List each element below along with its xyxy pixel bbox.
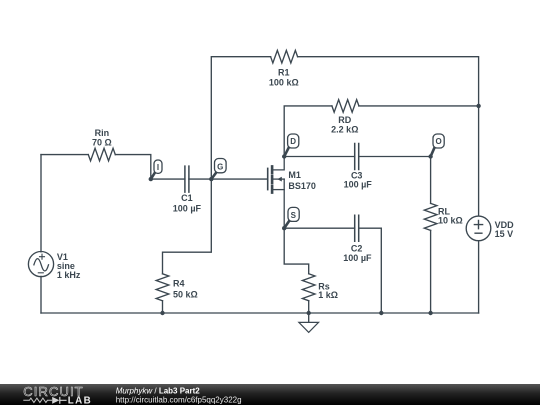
capacitor C3 — [344, 144, 373, 190]
svg-text:LAB: LAB — [68, 396, 92, 405]
wire node I to C1 — [151, 178, 185, 180]
wire gate — [211, 178, 267, 180]
svg-text:100 µF: 100 µF — [173, 203, 202, 213]
svg-text:100 kΩ: 100 kΩ — [269, 78, 299, 88]
wire node S to C2 — [284, 227, 355, 229]
svg-text:R1: R1 — [278, 68, 290, 78]
wire V1 top lead — [40, 155, 42, 252]
wire node O to RL — [430, 157, 432, 204]
wire V1 bottom lead — [40, 276, 42, 313]
wire node G to R4 — [163, 179, 212, 274]
wire RD left leg — [284, 106, 332, 157]
svg-text:C1: C1 — [181, 193, 193, 203]
wire RL to ground rail — [430, 230, 432, 313]
wire ground rail — [41, 312, 479, 314]
wire node D to C3 — [284, 156, 355, 158]
CircuitLab logo — [23, 384, 92, 405]
svg-text:Rin: Rin — [95, 128, 110, 138]
capacitor C1 — [173, 166, 202, 213]
capacitor C2 — [343, 215, 372, 263]
footer bar — [0, 384, 540, 405]
junction RL-rail — [428, 311, 432, 315]
resistor RL — [424, 203, 462, 230]
wire RD right lead — [359, 105, 479, 107]
transistor M1 — [268, 157, 316, 229]
svg-text:Murphykw / Lab3 Part2: Murphykw / Lab3 Part2 — [116, 386, 201, 395]
footer title text — [116, 386, 242, 404]
svg-text:D: D — [290, 137, 296, 146]
node O — [428, 134, 444, 159]
svg-text:BS170: BS170 — [288, 181, 316, 191]
resistor R4 — [156, 274, 198, 301]
svg-text:http://circuitlab.com/c6fp5qq2: http://circuitlab.com/c6fp5qq2y322g — [116, 395, 242, 404]
wire C1 to node G — [189, 178, 211, 180]
svg-text:O: O — [435, 137, 441, 146]
svg-text:S: S — [291, 211, 297, 220]
svg-text:C2: C2 — [351, 243, 363, 253]
wire Rin left lead — [41, 154, 88, 156]
resistor Rin — [88, 128, 115, 161]
svg-text:1 kHz: 1 kHz — [57, 270, 81, 280]
svg-text:100 µF: 100 µF — [343, 253, 372, 263]
node I — [149, 160, 162, 181]
wire node S to Rs — [284, 228, 309, 274]
junction Rs-rail — [307, 311, 311, 315]
voltage source V1 — [28, 252, 81, 281]
resistor RD — [331, 100, 359, 135]
svg-text:15 V: 15 V — [495, 229, 514, 239]
wire C2 to rail — [359, 228, 382, 313]
svg-text:10 kΩ: 10 kΩ — [438, 215, 463, 225]
wire R4 bottom lead — [162, 301, 164, 313]
wire R1 to VDD top — [298, 57, 479, 216]
svg-text:1 kΩ: 1 kΩ — [318, 290, 338, 300]
svg-text:M1: M1 — [288, 170, 301, 180]
junction C2-rail — [379, 311, 383, 315]
svg-text:50 kΩ: 50 kΩ — [173, 289, 198, 299]
wire Rs bottom lead — [308, 301, 310, 313]
resistor Rs — [302, 274, 338, 301]
node G — [209, 159, 226, 182]
junction R4-rail — [160, 311, 164, 315]
node S — [282, 207, 299, 230]
wire Rin right lead to node I — [115, 155, 151, 180]
svg-text:G: G — [217, 162, 223, 171]
svg-text:70 Ω: 70 Ω — [92, 138, 112, 148]
ground — [299, 313, 319, 332]
svg-text:100 µF: 100 µF — [344, 179, 373, 189]
svg-text:R4: R4 — [173, 278, 185, 288]
voltage source VDD — [466, 216, 514, 241]
node D — [282, 134, 299, 159]
resistor R1 — [269, 50, 299, 87]
wire C3 to node O — [359, 156, 431, 158]
junction RD-VDD — [476, 104, 480, 108]
svg-text:2.2 kΩ: 2.2 kΩ — [331, 124, 358, 134]
wire VDD bottom lead — [478, 241, 480, 313]
svg-text:I: I — [157, 163, 159, 172]
wire R1 left leg — [211, 57, 270, 179]
